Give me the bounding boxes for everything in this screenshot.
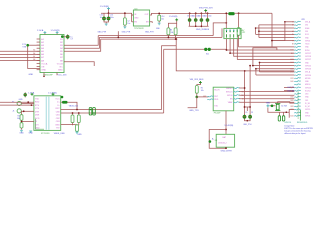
wire to GND_TPU (188, 97, 200, 112)
IC U2 level shifter TXB0108 (top-left) (40, 35, 64, 73)
svg-text:CE1: CE1 (305, 100, 308, 102)
resistor R2 left of U3 (17, 111, 23, 120)
U3 right vbus ferrite (61, 96, 78, 110)
bottom caps gnd bar (243, 119, 252, 126)
battery G1 CR2032 (209, 125, 235, 149)
svg-text:GND: GND (55, 124, 60, 126)
svg-text:11: 11 (292, 22, 294, 24)
svg-text:100n: 100n (110, 17, 114, 19)
capacitor C14 at IC3 output (156, 13, 164, 31)
IC3 nr pin stub (145, 22, 154, 34)
svg-text:2828: 2828 (290, 106, 293, 108)
svg-text:NC: NC (60, 66, 64, 68)
svg-text:RST: RST (203, 96, 206, 98)
USB pair vertical risers (162, 46, 177, 113)
svg-text:10k: 10k (171, 32, 174, 34)
svg-text:10u: 10u (127, 23, 130, 25)
svg-text:GPIO27: GPIO27 (305, 59, 311, 61)
3V3 line after ferrite (235, 12, 272, 14)
svg-text:GND: GND (58, 70, 63, 72)
green net vertical solid (299, 110, 301, 121)
svg-text:GND: GND (134, 17, 139, 19)
ferrite bead FB1 on 3V3 line (228, 12, 234, 15)
voltage regulator IC3 TPS796 (133, 8, 149, 26)
wires J1 to U3 (0, 101, 34, 112)
resistor R1 above U4 (195, 86, 203, 97)
junction at U2 top right (61, 35, 64, 38)
svg-text:MOSI0: MOSI0 (305, 78, 310, 80)
svg-text:JP2: JP2 (242, 32, 245, 34)
svg-text:SWCLK: SWCLK (226, 91, 233, 93)
svg-text:GND_PTH: GND_PTH (98, 31, 107, 33)
capacitor C13 left of IC3 (122, 12, 131, 33)
ESD diodes Z1 Z2 on USB pair (89, 108, 95, 116)
svg-text:100n: 100n (208, 15, 212, 17)
svg-text:VIN_PTH_3V3: VIN_PTH_3V3 (199, 7, 213, 9)
net labels on wires rows 21-22 (284, 87, 295, 92)
svg-text:1.5-3V(B): 1.5-3V(B) (224, 125, 233, 127)
caps pair gnd (98, 21, 109, 34)
svg-text:CE0: CE0 (305, 94, 308, 96)
svg-text:2020: 2020 (290, 81, 293, 83)
U4 left pin symbols (203, 96, 214, 100)
svg-text:GPIO0: GPIO0 (227, 95, 233, 97)
svg-text:GPIO4: GPIO4 (305, 40, 310, 42)
svg-text:CTS: CTS (35, 108, 40, 110)
svg-text:C9: C9 (187, 15, 189, 17)
supply VBAT at crystal (266, 101, 276, 107)
svg-text:C12: C12 (204, 15, 207, 17)
svg-text:GND_3V3BUS: GND_3V3BUS (196, 29, 210, 31)
JP2 top tap from 3V3 (225, 12, 227, 28)
svg-text:GND_PTH: GND_PTH (243, 124, 252, 126)
supply 1.5-3V(B) top (100, 6, 110, 13)
resistor R5 vertical (237, 13, 294, 47)
svg-text:GPIO22: GPIO22 (305, 65, 311, 67)
svg-text:55: 55 (292, 34, 294, 36)
svg-text:VCC: VCC (55, 98, 60, 100)
svg-text:GND: GND (29, 74, 34, 76)
svg-text:1919: 1919 (290, 78, 293, 80)
caps bank bottom rail (189, 22, 209, 27)
svg-text:1111: 1111 (291, 53, 294, 55)
svg-text:GPIO6: GPIO6 (305, 116, 310, 118)
svg-text:FT231XS: FT231XS (41, 133, 50, 135)
svg-text:GND: GND (77, 134, 82, 136)
wires from U2 right with staircase up (64, 36, 101, 52)
svg-text:1.5-3V(B): 1.5-3V(B) (100, 6, 109, 8)
U4 VBAT pin down to battery (225, 111, 227, 127)
stub wire near C13 gnd to bus (117, 31, 119, 38)
svg-text:GND: GND (19, 132, 24, 134)
svg-text:GND_BTRY: GND_BTRY (221, 151, 233, 153)
svg-text:1.5-3V(B): 1.5-3V(B) (51, 30, 60, 32)
JP2 pin drop wires to header (226, 39, 295, 60)
svg-text:GND: GND (19, 99, 24, 101)
polarized cap C20 bottom (243, 112, 248, 119)
pullup resistor R3 (167, 28, 172, 38)
top rows feed wires (255, 25, 295, 38)
second drop to bottom cap (249, 65, 251, 115)
svg-text:1010: 1010 (290, 50, 293, 52)
svg-text:GPIO14: GPIO14 (284, 122, 291, 124)
svg-text:4k7: 4k7 (242, 30, 245, 32)
svg-text:SCLK0: SCLK0 (305, 90, 310, 92)
svg-text:88: 88 (292, 43, 294, 45)
resistor R7 vertical (278, 116, 280, 121)
polarized cap C21 bottom (248, 112, 253, 119)
svg-text:ESP/TX is the same pin as ESP/: ESP/TX is the same pin as ESP/RX (284, 127, 313, 130)
svg-text:GPIO18: GPIO18 (305, 56, 311, 58)
svg-text:TXB0108P: TXB0108P (43, 75, 53, 77)
svg-text:VCCB: VCCB (57, 63, 64, 65)
svg-text:VBUS_5V0: VBUS_5V0 (69, 105, 78, 107)
bus2 end turn (221, 28, 223, 37)
connector J1 USB jack (12, 101, 21, 113)
svg-text:C7: C7 (70, 39, 72, 41)
crystal Y1 (275, 104, 287, 111)
svg-text:MCLR: MCLR (214, 90, 220, 92)
svg-text:TPS79628: TPS79628 (134, 28, 144, 30)
series resistors R8 R9 below pair (71, 112, 80, 125)
cap below U3 right (61, 125, 83, 136)
svg-text:TXD: TXD (35, 98, 40, 100)
U2 red pin numbers (33, 49, 35, 61)
svg-text:5V0: 5V0 (305, 31, 308, 33)
svg-text:VBUS_USB: VBUS_USB (54, 133, 65, 135)
wire from U2 lower right (64, 62, 94, 66)
junction and drop at x176 to bottom caps (175, 38, 246, 115)
svg-text:C11: C11 (198, 15, 201, 17)
input node wire to regulator (101, 12, 133, 15)
capacitor C16 10u (100, 13, 106, 21)
svg-text:GND: GND (41, 70, 46, 72)
svg-text:SCL1: SCL1 (305, 34, 309, 36)
U2 left pin stubs (37, 39, 40, 70)
svg-text:J1: J1 (12, 111, 14, 113)
svg-text:GPIO24: GPIO24 (305, 75, 311, 77)
svg-text:10k: 10k (17, 118, 20, 120)
bypass caps bank C9-C12 (187, 12, 212, 22)
resistor R8 vertical (282, 116, 284, 121)
svg-text:1313: 1313 (290, 59, 293, 61)
svg-text:2525: 2525 (290, 97, 293, 99)
capacitor C17 top left of U3 (19, 92, 27, 101)
svg-text:2929: 2929 (290, 109, 293, 111)
solder jumper SJ1 (164, 48, 227, 56)
crystal wires to header (268, 102, 294, 113)
svg-text:C10: C10 (192, 15, 195, 17)
U4 right pin wires to header (233, 87, 294, 103)
svg-text:ESP_TX: ESP_TX (288, 87, 295, 89)
svg-text:1616: 1616 (290, 68, 293, 70)
U2 bottom pin stubs (43, 73, 57, 78)
svg-text:44: 44 (292, 31, 294, 33)
svg-text:SJ1: SJ1 (206, 54, 209, 56)
header mid row wires from left (271, 40, 294, 42)
svg-text:10n: 10n (161, 18, 164, 20)
svg-text:10k: 10k (201, 90, 204, 92)
svg-text:IC3: IC3 (134, 8, 137, 10)
header JP1 GPIO pin column (290, 19, 311, 117)
svg-text:5V0: 5V0 (305, 25, 308, 27)
svg-text:RESERVED: RESERVED (297, 122, 308, 124)
svg-text:D-: D- (58, 105, 60, 107)
svg-text:RXD: RXD (214, 99, 219, 101)
svg-text:TXD: TXD (214, 105, 218, 107)
extra feed wires rows 13-17 (245, 62, 294, 75)
wire bus from left edge to U2 (0, 51, 40, 60)
svg-text:1.5-3V(B): 1.5-3V(B) (169, 16, 178, 18)
svg-text:3V3_A: 3V3_A (305, 71, 311, 74)
svg-text:3131: 3131 (290, 115, 293, 117)
LED D1 below R2 (19, 123, 24, 135)
svg-text:RTS: RTS (35, 105, 40, 107)
svg-text:G1: G1 (215, 140, 218, 142)
USB data pair wires (61, 109, 164, 113)
svg-text:GPIO23: GPIO23 (305, 69, 311, 71)
svg-text:PIC24F: PIC24F (214, 113, 222, 115)
supply VIN_3V3_BUS above U4 (190, 79, 204, 86)
svg-text:1717: 1717 (290, 72, 293, 74)
svg-text:DSR: DSR (35, 115, 40, 117)
wire bottom right to resistors (279, 112, 289, 118)
svg-text:VCC_5V0: VCC_5V0 (58, 75, 68, 77)
wire R2 junction to U3 pin (21, 120, 34, 122)
svg-text:ID_SC: ID_SC (305, 106, 311, 108)
svg-text:3V3_A: 3V3_A (305, 21, 311, 24)
IC3 output rail 3V3 (150, 13, 229, 15)
svg-text:MISO0: MISO0 (305, 84, 310, 86)
bus1 riser to JP2 (213, 22, 227, 36)
net 1.5V stub with junction (22, 44, 40, 69)
connector JP2 4-pin (224, 28, 245, 38)
svg-text:DCD: DCD (35, 118, 40, 120)
svg-text:VCCA: VCCA (41, 62, 48, 65)
svg-text:ESP_RX: ESP_RX (288, 90, 296, 92)
svg-text:but get connected to the housi: but get connected to the housing (284, 130, 310, 133)
svg-text:22: 22 (292, 25, 294, 27)
pullup resistor R4 (171, 28, 178, 40)
supply 1.5V-A above U3 (28, 91, 35, 95)
bridge wire between drops (244, 106, 251, 111)
svg-text:Design Note:: Design Note: (284, 124, 295, 127)
svg-text:different data pin for layout: different data pin for layout (284, 132, 306, 135)
svg-text:GND_PTH: GND_PTH (145, 31, 154, 33)
svg-text:GPIO5: GPIO5 (305, 109, 310, 111)
svg-text:ID_SD: ID_SD (305, 103, 311, 105)
svg-text:DTR: DTR (35, 111, 40, 113)
U3 second gnd (29, 131, 34, 135)
3V3 branch to header top rows (272, 21, 294, 41)
svg-text:SWDIO: SWDIO (226, 88, 233, 90)
capacitor C7 right of U2 (64, 34, 73, 40)
IC3 left pin stubs tied (132, 15, 134, 22)
green net vertical right side (297, 92, 299, 120)
3V3 corner down right side (271, 13, 273, 47)
svg-text:32.768: 32.768 (281, 106, 287, 108)
IC U3 USB bridge FT231 (bottom-left) (34, 96, 61, 131)
long mid bus lines (98, 36, 222, 40)
svg-text:GND_TPU: GND_TPU (189, 110, 199, 112)
junction green on vbat line (271, 105, 274, 108)
svg-text:VBAT: VBAT (228, 101, 234, 104)
junction green at U4 left (196, 96, 209, 99)
svg-text:GPIO25: GPIO25 (305, 87, 311, 89)
supply 1.5-3V(B) for pullups (168, 16, 178, 28)
svg-text:GND: GND (35, 128, 40, 130)
routing rectangle wires mid right (252, 48, 294, 67)
svg-text:TXD0: TXD0 (305, 44, 309, 46)
svg-text:GND_PTH: GND_PTH (122, 31, 131, 33)
svg-text:GPIO17: GPIO17 (305, 53, 311, 55)
svg-text:GND: GND (29, 132, 34, 134)
svg-text:1414: 1414 (290, 62, 293, 64)
svg-text:C6: C6 (245, 112, 247, 114)
svg-text:SDA1: SDA1 (305, 27, 309, 30)
design note text (284, 124, 313, 135)
supply 1.5V-A above U2 (37, 29, 46, 35)
svg-text:1.5V-A: 1.5V-A (37, 29, 44, 32)
svg-text:2626: 2626 (290, 100, 293, 102)
svg-text:CR2032-2: CR2032-2 (218, 142, 227, 144)
capacitor C15 100n (107, 13, 114, 21)
svg-text:VIN_3V3_BUS: VIN_3V3_BUS (190, 79, 204, 81)
svg-text:RXD0: RXD0 (305, 50, 310, 52)
svg-text:RXD: RXD (35, 102, 40, 104)
svg-text:C8: C8 (251, 112, 253, 114)
IC U4 (bottom-middle) (213, 87, 234, 111)
supply 1.5-3V(B) above U2 (51, 30, 60, 35)
supply VIN_3V3_BUS top (199, 7, 213, 13)
supply 1.5-3V(B) above U3 (48, 92, 57, 95)
